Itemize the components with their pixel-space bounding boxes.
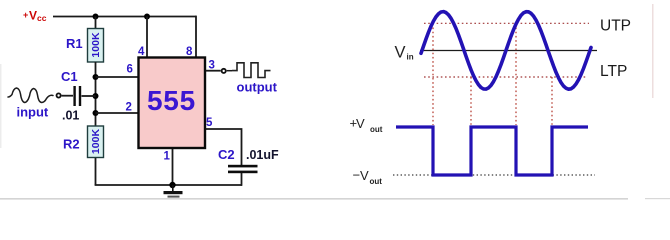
- ground: [164, 185, 183, 198]
- trigger vertical dotted line 3: [515, 23, 517, 125]
- svg-text:cc: cc: [37, 13, 47, 23]
- scan artifact right vertical line: [652, 4, 654, 98]
- Vin axis line: [420, 50, 597, 52]
- svg-text:5: 5: [206, 117, 213, 129]
- svg-text:C2: C2: [218, 147, 235, 162]
- wire C1 to rail: [82, 95, 96, 97]
- wire R2 bottom lead: [95, 158, 97, 185]
- wire Vcc top rail: [53, 16, 196, 18]
- output terminal circle: [222, 69, 226, 73]
- svg-text:UTP: UTP: [600, 18, 631, 35]
- wire pin 1 drop: [172, 148, 174, 185]
- input terminal circle: [57, 93, 61, 97]
- node junction Vcc/pin4: [144, 14, 150, 20]
- input source squiggle: [8, 88, 53, 103]
- node junction C1: [93, 93, 99, 99]
- resistor R2: [88, 126, 104, 158]
- capacitor C2: [228, 165, 258, 173]
- svg-text:V: V: [395, 44, 406, 62]
- wire pin 6: [96, 76, 139, 78]
- op-amp U1 555 timer IC: [139, 58, 206, 149]
- wire C2 bottom lead: [241, 173, 243, 186]
- trigger vertical dotted line 4: [551, 77, 553, 125]
- wire left rail R1 to R2: [95, 62, 97, 126]
- wire pin 8 drop: [195, 16, 197, 57]
- svg-text:in: in: [407, 53, 414, 62]
- power rail +Vcc label: [23, 9, 47, 24]
- trigger vertical dotted line 2: [470, 77, 472, 125]
- svg-text:out: out: [370, 177, 383, 186]
- svg-text:out: out: [370, 125, 383, 134]
- wire bottom ground rail: [95, 184, 242, 186]
- wire pin 2: [96, 112, 139, 114]
- capacitor C1: [73, 86, 81, 106]
- svg-text:555: 555: [147, 85, 196, 116]
- svg-text:1: 1: [164, 151, 171, 163]
- wire circle to waveform icon: [227, 70, 232, 72]
- output square-wave icon: [232, 63, 271, 78]
- node junction pin2: [93, 110, 99, 116]
- svg-text:6: 6: [127, 64, 133, 76]
- svg-text:V: V: [360, 168, 369, 183]
- svg-text:.01: .01: [62, 109, 79, 123]
- svg-text:4: 4: [138, 46, 145, 58]
- -Vout dotted baseline: [393, 174, 595, 176]
- LTP threshold dotted line: [424, 76, 587, 78]
- svg-text:C1: C1: [61, 69, 78, 84]
- svg-text:R2: R2: [63, 137, 80, 152]
- svg-text:output: output: [237, 80, 278, 95]
- wire input to C1: [62, 95, 73, 97]
- trigger vertical dotted line 1: [432, 23, 434, 125]
- scan artifact left edge: [0, 64, 2, 148]
- node junction ground: [169, 182, 175, 188]
- wire pin 3 output: [206, 70, 221, 72]
- svg-text:8: 8: [186, 46, 193, 58]
- svg-text:V: V: [356, 116, 365, 131]
- svg-text:3: 3: [209, 60, 215, 72]
- label Vin: [395, 44, 414, 62]
- wire pin 4 drop: [146, 17, 148, 58]
- svg-text:R1: R1: [66, 36, 83, 51]
- svg-text:.01uF: .01uF: [246, 148, 279, 162]
- label +Vout: [350, 116, 383, 135]
- svg-text:100K: 100K: [90, 129, 102, 155]
- UTP threshold dotted line: [424, 22, 589, 24]
- svg-text:−: −: [353, 168, 361, 183]
- svg-text:input: input: [17, 105, 49, 120]
- input sine wave: [421, 12, 591, 90]
- scan artifact bottom line: [0, 198, 628, 199]
- svg-text:+: +: [23, 10, 28, 20]
- wire R1 top lead: [95, 17, 97, 30]
- svg-text:V: V: [29, 9, 37, 23]
- svg-text:2: 2: [126, 102, 132, 114]
- label -Vout: [353, 168, 383, 187]
- output square wave: [396, 127, 588, 175]
- svg-text:100K: 100K: [90, 32, 102, 58]
- node junction pin6: [93, 74, 99, 80]
- wire pin 5: [206, 129, 242, 165]
- node junction Vcc/R1: [93, 14, 99, 20]
- resistor R1: [88, 29, 104, 63]
- svg-text:LTP: LTP: [600, 63, 627, 80]
